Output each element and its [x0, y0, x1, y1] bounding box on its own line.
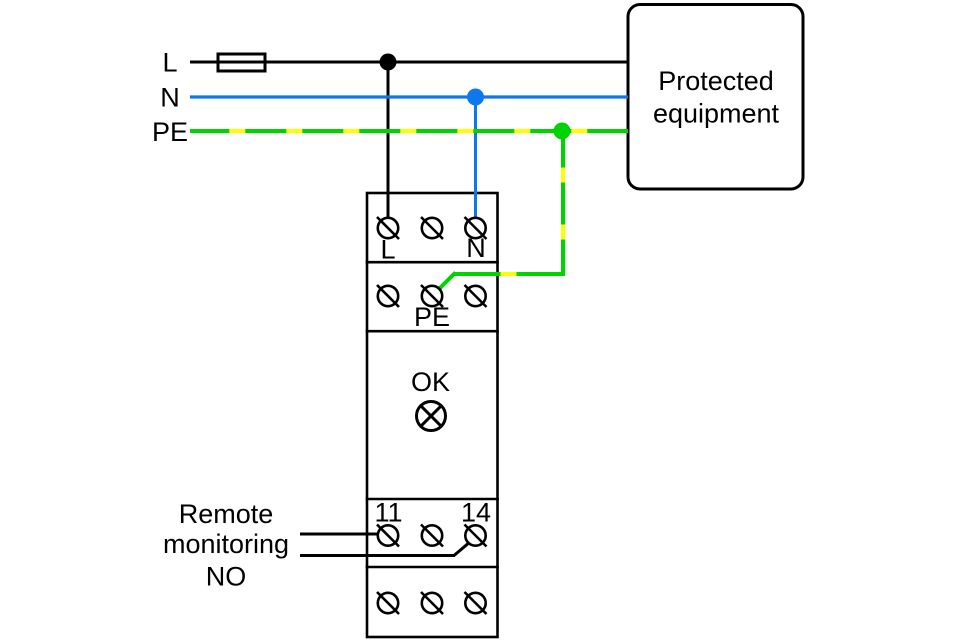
- junction node on L: [380, 54, 397, 71]
- svg-text:equipment: equipment: [653, 99, 780, 129]
- junction node on PE: [554, 123, 571, 140]
- terminal row2 col2 (PE): [421, 285, 443, 307]
- fuse F1: [218, 54, 265, 71]
- wire PE drop vertical (green dashes): [561, 131, 565, 276]
- wire N horizontal bus: [190, 95, 628, 98]
- divider 2: [366, 330, 499, 333]
- svg-text:OK: OK: [411, 367, 450, 397]
- protected equipment box: [628, 5, 803, 190]
- svg-text:PE: PE: [152, 117, 188, 147]
- svg-text:monitoring: monitoring: [163, 529, 289, 559]
- junction node on N: [467, 89, 484, 106]
- svg-text:11: 11: [374, 498, 402, 528]
- svg-text:N: N: [466, 233, 486, 263]
- status lamp: [417, 402, 446, 431]
- wire N vertical drop to terminal N: [474, 97, 477, 219]
- wire PE drop horizontal (yellow base): [454, 272, 565, 276]
- remote monitoring wire to 11: [300, 533, 379, 536]
- wire PE drop diagonal into PE terminal: [439, 273, 456, 290]
- terminal row1 col1 (L): [377, 217, 399, 239]
- wire L horizontal bus: [190, 61, 628, 64]
- terminal row5 col1: [377, 592, 399, 614]
- wire PE horizontal bus (green dashes): [190, 129, 628, 133]
- terminal row1 col2: [421, 217, 443, 239]
- wire L vertical drop to terminal L: [387, 62, 390, 219]
- terminal row2 col3: [465, 285, 487, 307]
- divider 4: [366, 566, 499, 569]
- terminal row5 col2: [421, 592, 443, 614]
- wire PE drop horizontal (green dashes): [454, 272, 565, 276]
- remote monitoring wire to 14: [300, 543, 469, 555]
- divider 3: [366, 498, 499, 501]
- svg-text:L: L: [162, 48, 177, 78]
- divider 1: [366, 261, 499, 264]
- svg-text:14: 14: [461, 498, 491, 528]
- terminal row5 col3: [465, 592, 487, 614]
- wire PE drop vertical (yellow base): [561, 131, 565, 276]
- terminal row4 col1 (11): [377, 525, 399, 547]
- terminal row1 col3 (N): [465, 217, 487, 239]
- svg-text:Protected: Protected: [658, 66, 774, 96]
- svg-text:NO: NO: [206, 562, 247, 592]
- svg-text:PE: PE: [414, 302, 450, 332]
- wire PE horizontal bus (yellow base): [190, 129, 628, 133]
- svg-text:Remote: Remote: [179, 499, 274, 529]
- svg-text:N: N: [160, 83, 180, 113]
- terminal row2 col1: [377, 285, 399, 307]
- terminal row4 col2: [421, 525, 443, 547]
- terminal row4 col3 (14): [465, 525, 487, 547]
- svg-text:L: L: [380, 235, 395, 265]
- SPD module outline: [367, 193, 498, 637]
